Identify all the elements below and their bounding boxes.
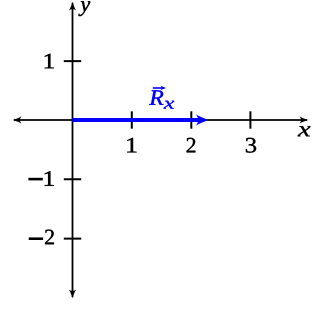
- vector Rx arrowhead: [196, 115, 209, 126]
- x-axis right arrowhead: [300, 116, 309, 123]
- tick y=1: [64, 60, 81, 62]
- label y tick -2 digit: [45, 230, 54, 245]
- y-axis: [72, 3, 74, 297]
- y-axis top arrowhead: [69, 2, 76, 11]
- x-axis left arrowhead: [13, 116, 22, 123]
- tick x=2: [190, 111, 192, 128]
- tick x=1: [131, 111, 133, 128]
- label x tick 1: [127, 138, 136, 153]
- label vector subscript x: [164, 101, 175, 109]
- label y tick -1 minus: [28, 178, 42, 181]
- label vector R: [149, 90, 163, 104]
- tick y=-1: [64, 178, 81, 180]
- tick y=-2: [64, 238, 81, 240]
- label vector hat arrow: [153, 86, 166, 91]
- vector Rx shaft: [73, 118, 203, 122]
- label y tick -1 digit: [45, 171, 54, 186]
- label x axis: [298, 126, 311, 136]
- label y axis: [78, 1, 90, 16]
- label y tick -2 minus: [29, 237, 43, 240]
- x-axis: [14, 119, 307, 121]
- y-axis bottom arrowhead: [69, 290, 76, 299]
- label x tick 3: [246, 138, 256, 153]
- label y tick 1: [45, 54, 54, 69]
- label x tick 2: [187, 138, 196, 153]
- tick x=3: [249, 111, 251, 128]
